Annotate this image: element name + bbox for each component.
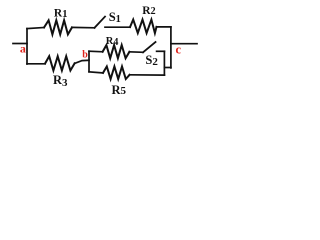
wire R4 to S2 <box>129 51 143 54</box>
resistor R2 <box>130 20 157 33</box>
svg-text:S2: S2 <box>145 53 158 68</box>
switch S1 blade <box>95 17 106 28</box>
wire R3 to node b <box>75 60 89 63</box>
switch S2 blade <box>143 42 156 52</box>
wire left bus <box>26 29 28 64</box>
switch S2 contact wire <box>157 50 165 52</box>
wire inner right bus <box>163 51 165 75</box>
wire right bus <box>170 27 172 68</box>
svg-text:a: a <box>20 42 26 56</box>
wire jog to right bus <box>164 67 171 69</box>
svg-text:R3: R3 <box>53 73 68 89</box>
svg-text:R4: R4 <box>106 36 119 48</box>
wire b to R5 <box>89 72 103 73</box>
wire top left <box>27 28 44 29</box>
svg-text:c: c <box>176 42 182 56</box>
wire b to R4 <box>89 50 103 53</box>
svg-text:R5: R5 <box>112 83 127 97</box>
resistor R3 <box>45 56 75 70</box>
switch S1 contact wire <box>105 26 130 28</box>
wire R2 to corner <box>157 26 171 28</box>
wire R1 to S1 <box>72 26 95 28</box>
wire R5 to bus <box>130 74 165 76</box>
svg-text:b: b <box>82 50 88 61</box>
svg-text:S1: S1 <box>109 10 121 25</box>
wire node b bus <box>88 51 90 72</box>
resistor R5 <box>103 67 130 80</box>
node c lead <box>171 43 197 45</box>
wire bottom left <box>27 63 45 65</box>
resistor R4 <box>103 45 130 58</box>
svg-text:R1: R1 <box>54 7 68 20</box>
node a lead <box>13 43 27 45</box>
resistor R1 <box>44 20 72 34</box>
svg-text:R2: R2 <box>142 5 155 17</box>
